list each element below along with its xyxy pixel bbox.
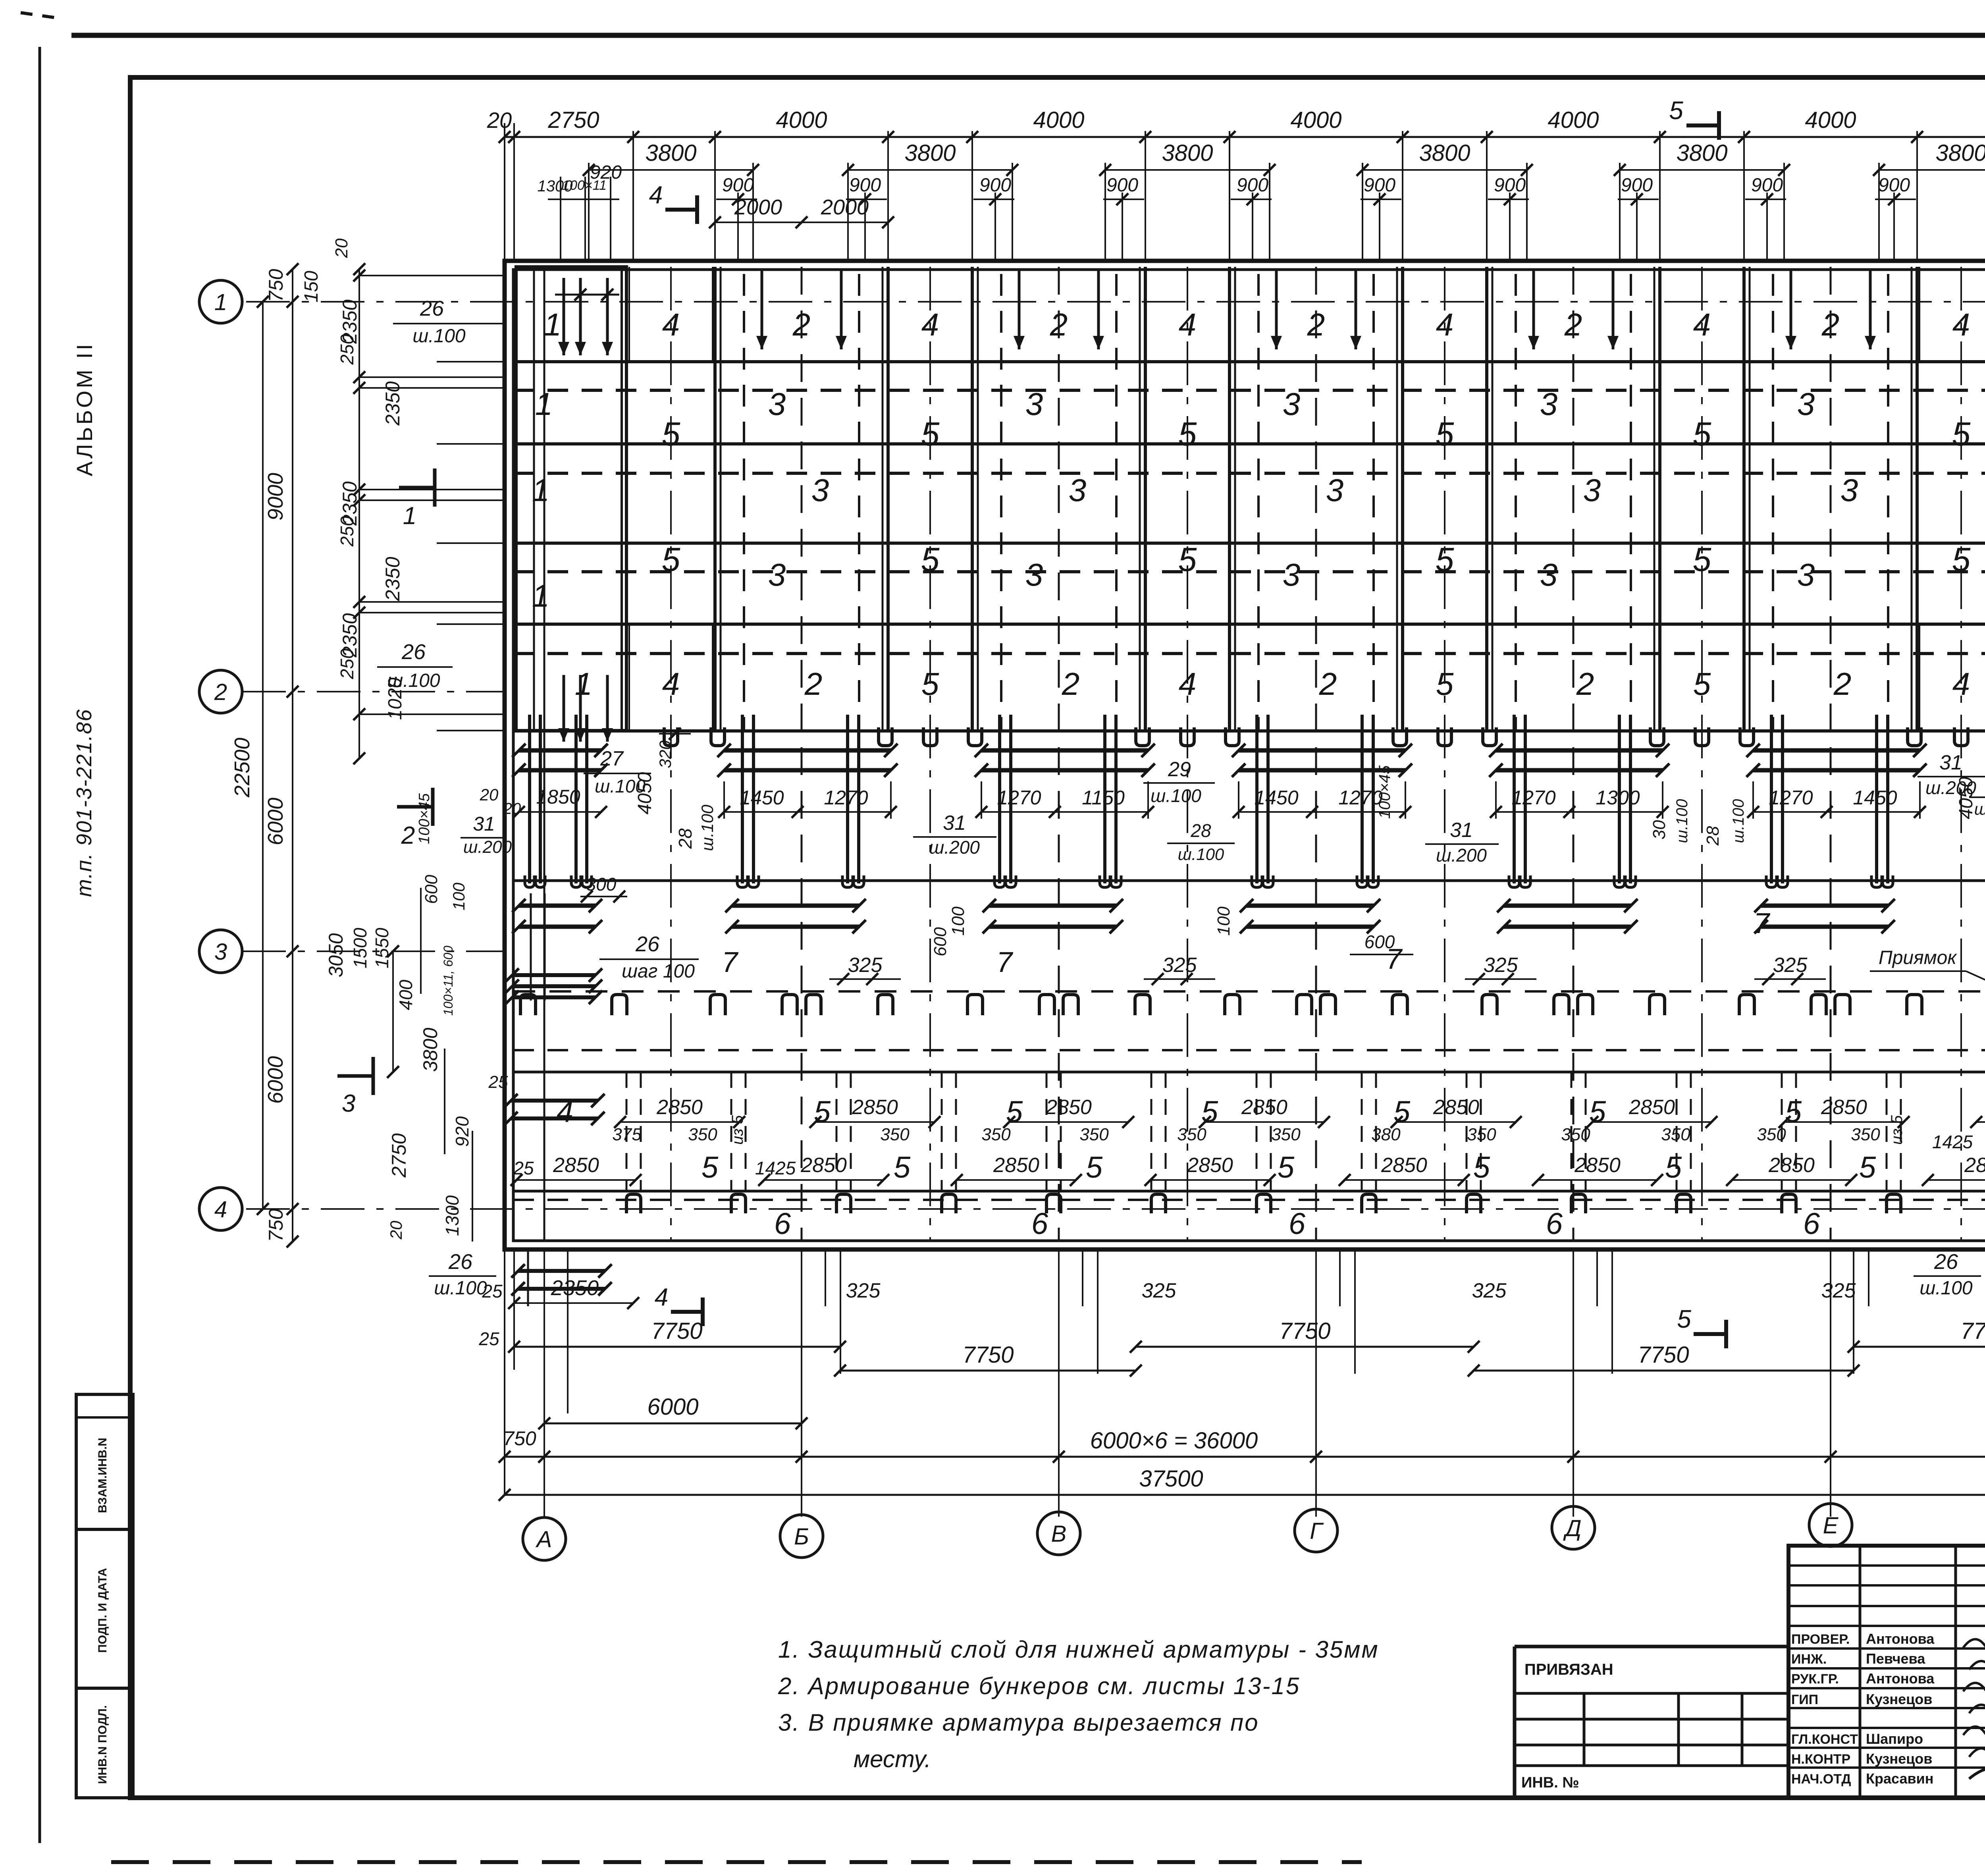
svg-text:1: 1: [575, 666, 593, 702]
svg-text:Шапиро: Шапиро: [1866, 1731, 1923, 1747]
svg-text:3050: 3050: [325, 933, 347, 977]
lower bars left edge corner: [511, 1099, 598, 1103]
svg-text:375: 375: [612, 1125, 642, 1144]
corner scan marks: [21, 13, 60, 18]
lower zone hooks: [626, 1194, 641, 1213]
svg-text:7750: 7750: [1279, 1318, 1330, 1344]
svg-text:31: 31: [1450, 819, 1473, 842]
svg-text:2350: 2350: [382, 557, 404, 601]
bottom 7750 row 2: [840, 1370, 1136, 1372]
svg-text:9000: 9000: [264, 473, 287, 521]
left chain 22500: [262, 302, 264, 1209]
svg-text:7: 7: [996, 947, 1014, 978]
lower zone dashed line B: [513, 1199, 1985, 1201]
column strip axis Е: [1742, 267, 1746, 731]
svg-text:25: 25: [488, 1072, 508, 1092]
hooks along joint: [710, 995, 725, 1015]
svg-text:4: 4: [557, 1095, 573, 1129]
svg-text:31: 31: [1939, 751, 1962, 774]
column strip axis Б: [713, 267, 717, 731]
svg-text:31: 31: [943, 812, 966, 835]
svg-text:2850: 2850: [1964, 1154, 1985, 1177]
svg-text:350: 350: [1661, 1125, 1690, 1144]
svg-text:4000: 4000: [776, 107, 827, 133]
svg-text:1425: 1425: [1932, 1132, 1973, 1152]
svg-text:25: 25: [482, 1281, 503, 1301]
svg-text:3: 3: [1069, 472, 1087, 508]
svg-text:320: 320: [656, 740, 675, 768]
svg-text:1150: 1150: [1082, 787, 1125, 809]
svg-text:2850: 2850: [1381, 1154, 1427, 1177]
svg-text:1300: 1300: [1596, 787, 1640, 809]
svg-text:ГЛ.КОНСТ: ГЛ.КОНСТ: [1791, 1732, 1858, 1747]
svg-text:3: 3: [1540, 557, 1558, 592]
svg-text:920: 920: [590, 162, 622, 183]
sheet outer border top: [71, 33, 1985, 38]
bottom 37500 row: [505, 1494, 1985, 1496]
svg-text:1270: 1270: [997, 787, 1041, 809]
plan bottom slab outline inner: [513, 270, 1985, 1241]
svg-text:350: 350: [688, 1125, 717, 1144]
rebar cluster axis D: [1513, 715, 1516, 883]
svg-text:5: 5: [1086, 1151, 1103, 1184]
svg-text:2850: 2850: [656, 1096, 703, 1119]
svg-text:2: 2: [792, 307, 811, 342]
svg-text:из 5: из 5: [1888, 1115, 1906, 1145]
svg-text:Кузнецов: Кузнецов: [1866, 1691, 1932, 1707]
svg-text:7: 7: [1754, 908, 1771, 939]
svg-text:100×45: 100×45: [416, 793, 433, 844]
svg-text:5: 5: [1278, 1151, 1295, 1184]
svg-text:5: 5: [1589, 1095, 1606, 1129]
svg-text:1: 1: [544, 307, 562, 342]
svg-text:2850: 2850: [800, 1154, 847, 1177]
lower zone solid line B: [513, 1190, 1985, 1193]
svg-text:25: 25: [513, 1158, 534, 1178]
svg-text:6000: 6000: [647, 1394, 698, 1420]
svg-text:ш.100: ш.100: [698, 804, 717, 851]
svg-text:ш.100: ш.100: [1151, 785, 1201, 806]
svg-text:ш.100: ш.100: [1178, 845, 1224, 864]
svg-text:2850: 2850: [1187, 1154, 1233, 1177]
svg-text:ИНВ. №: ИНВ. №: [1521, 1774, 1579, 1791]
svg-text:3: 3: [1540, 386, 1558, 422]
svg-text:5: 5: [1436, 541, 1454, 578]
svg-text:100: 100: [1214, 906, 1233, 936]
svg-text:400: 400: [395, 979, 416, 1010]
svg-text:2: 2: [1833, 666, 1852, 702]
svg-text:600: 600: [422, 875, 441, 904]
svg-text:1450: 1450: [740, 787, 784, 809]
svg-text:750: 750: [265, 269, 287, 302]
svg-text:Н.КОНТР: Н.КОНТР: [1791, 1752, 1850, 1767]
svg-text:2000: 2000: [821, 195, 869, 219]
svg-text:АЛЬБОМ II: АЛЬБОМ II: [72, 341, 97, 476]
svg-text:6: 6: [1289, 1207, 1306, 1241]
bottom 6000 row: [544, 1423, 802, 1425]
svg-text:1450: 1450: [1853, 787, 1897, 809]
axis 4 dash-dot: [246, 1208, 1985, 1210]
rebar cluster edge A: [528, 715, 531, 883]
svg-text:месту.: месту.: [854, 1746, 931, 1772]
svg-text:7750: 7750: [962, 1342, 1014, 1368]
sheet outer border left: [39, 47, 41, 1843]
svg-text:5: 5: [814, 1095, 831, 1129]
svg-text:25: 25: [478, 1328, 499, 1349]
svg-text:4: 4: [1179, 666, 1197, 702]
svg-text:26: 26: [1934, 1250, 1958, 1274]
svg-text:6000: 6000: [264, 1056, 287, 1104]
svg-text:2: 2: [1821, 307, 1840, 342]
svg-text:2850: 2850: [1628, 1096, 1675, 1119]
svg-text:7750: 7750: [1960, 1318, 1985, 1344]
svg-text:325: 325: [1142, 1279, 1177, 1302]
axis circle 4: [199, 1188, 242, 1230]
svg-text:3: 3: [342, 1090, 355, 1117]
top projection lines: [714, 131, 716, 261]
svg-text:ш.100: ш.100: [1673, 799, 1691, 843]
svg-text:2: 2: [214, 679, 227, 705]
svg-text:ш.100: ш.100: [1730, 799, 1747, 843]
axis leader lines: [242, 691, 505, 692]
svg-text:ИНВ.N ПОДЛ.: ИНВ.N ПОДЛ.: [96, 1705, 109, 1784]
svg-text:750: 750: [265, 1209, 287, 1242]
svg-text:3: 3: [1583, 472, 1601, 508]
svg-text:4: 4: [662, 307, 680, 342]
svg-text:350: 350: [1851, 1125, 1880, 1144]
svg-text:5: 5: [1693, 415, 1711, 453]
svg-text:2: 2: [1576, 666, 1594, 702]
svg-text:4: 4: [662, 666, 680, 702]
svg-text:В: В: [1051, 1521, 1067, 1547]
svg-text:5: 5: [894, 1151, 911, 1184]
svg-text:20: 20: [503, 800, 521, 817]
svg-text:2850: 2850: [993, 1154, 1039, 1177]
svg-text:37500: 37500: [1139, 1466, 1203, 1492]
svg-text:350: 350: [880, 1125, 910, 1144]
svg-text:Певчева: Певчева: [1866, 1650, 1925, 1667]
svg-text:3: 3: [1025, 557, 1043, 592]
svg-text:28: 28: [1703, 826, 1723, 846]
title block frame: [1788, 1546, 1985, 1798]
svg-text:5: 5: [1952, 415, 1971, 453]
svg-text:350: 350: [1079, 1125, 1109, 1144]
rebar cluster axis E: [1770, 715, 1773, 883]
svg-text:3800: 3800: [419, 1028, 441, 1072]
svg-text:150: 150: [301, 271, 322, 303]
svg-text:29: 29: [1168, 758, 1191, 781]
svg-text:4000: 4000: [1290, 107, 1341, 133]
svg-text:5: 5: [1006, 1095, 1023, 1129]
svg-text:3800: 3800: [904, 140, 956, 166]
svg-text:4: 4: [921, 307, 939, 342]
left stamp column: [76, 1394, 133, 1798]
bottom axis circles: [523, 1517, 566, 1560]
svg-text:5: 5: [1201, 1095, 1218, 1129]
svg-text:5: 5: [1436, 415, 1454, 453]
svg-text:РУК.ГР.: РУК.ГР.: [1791, 1672, 1839, 1687]
svg-text:250: 250: [337, 648, 357, 679]
bottom 7750 row 1: [514, 1346, 840, 1348]
svg-text:5: 5: [1436, 666, 1454, 702]
svg-text:7: 7: [1386, 943, 1403, 975]
svg-text:ИНЖ.: ИНЖ.: [1791, 1652, 1827, 1667]
svg-text:2850: 2850: [1768, 1154, 1815, 1177]
svg-text:5: 5: [1693, 666, 1711, 702]
svg-text:ш.100: ш.100: [412, 326, 466, 347]
sheet outer border bottom dashed: [111, 1860, 1362, 1864]
gap centre bottom hooks: [664, 727, 678, 746]
title block signature grid: [1788, 1564, 1985, 1567]
svg-text:4: 4: [1952, 307, 1970, 342]
svg-text:2. Армирование бункеров см.: 2. Армирование бункеров см. листы 13-15: [778, 1673, 1300, 1699]
rebar cluster axis B: [741, 715, 744, 883]
svg-text:600: 600: [931, 927, 950, 956]
svg-text:2: 2: [1564, 307, 1582, 342]
svg-text:ПОДП. И ДАТА: ПОДП. И ДАТА: [96, 1568, 109, 1653]
column strip axis Д: [1485, 267, 1488, 731]
svg-text:26: 26: [401, 640, 426, 664]
svg-text:5: 5: [1952, 541, 1971, 578]
bay centre dash-dot verticals: [670, 267, 672, 1241]
svg-text:4: 4: [655, 1284, 668, 1311]
upper zone solid row lines: [513, 360, 1985, 363]
svg-text:1500: 1500: [350, 927, 370, 968]
svg-text:920: 920: [452, 1116, 472, 1147]
svg-text:4000: 4000: [1548, 107, 1599, 133]
svg-text:5: 5: [662, 415, 680, 453]
svg-text:6000: 6000: [264, 798, 287, 845]
svg-text:шаг 100: шаг 100: [622, 961, 695, 982]
svg-text:20: 20: [487, 108, 512, 133]
svg-text:3: 3: [768, 386, 786, 422]
axis 1 dash-dot line: [246, 301, 1985, 303]
svg-text:250: 250: [337, 334, 357, 365]
svg-text:3: 3: [214, 939, 227, 965]
band divider line (bottom of middle band): [513, 879, 1985, 882]
svg-text:4: 4: [649, 181, 663, 209]
svg-text:2: 2: [1050, 307, 1068, 342]
top dim row 1: [505, 136, 1985, 138]
svg-text:5: 5: [1859, 1151, 1876, 1184]
column strip axis В: [971, 267, 974, 731]
svg-text:5: 5: [662, 541, 680, 578]
svg-text:7750: 7750: [651, 1318, 702, 1344]
svg-text:350: 350: [1177, 1125, 1206, 1144]
svg-text:7: 7: [722, 947, 739, 978]
svg-text:20: 20: [332, 238, 351, 258]
signatures: [1963, 1636, 1985, 1650]
svg-text:2: 2: [1307, 307, 1325, 342]
svg-text:Б: Б: [794, 1524, 809, 1550]
svg-text:5: 5: [1178, 541, 1197, 578]
rebar cluster axis G: [1255, 715, 1258, 883]
svg-text:4050: 4050: [634, 772, 655, 814]
svg-text:26: 26: [420, 297, 444, 320]
svg-text:28: 28: [1190, 820, 1211, 841]
rebar cluster axis V: [998, 715, 1001, 883]
svg-text:1450: 1450: [1254, 787, 1298, 809]
svg-text:5: 5: [1785, 1095, 1802, 1129]
svg-text:30: 30: [1650, 820, 1669, 839]
svg-text:20: 20: [480, 785, 499, 804]
svg-text:5: 5: [921, 666, 939, 702]
hooked bars edge strip A top: [563, 278, 565, 355]
svg-text:4000: 4000: [1033, 107, 1084, 133]
svg-text:Г: Г: [1310, 1518, 1324, 1544]
svg-text:100: 100: [449, 882, 468, 910]
svg-text:Д: Д: [1563, 1515, 1582, 1541]
svg-text:1: 1: [403, 502, 416, 530]
svg-text:3: 3: [1283, 386, 1301, 422]
svg-text:1270: 1270: [1769, 787, 1813, 809]
svg-text:20: 20: [387, 1220, 405, 1240]
svg-text:100: 100: [948, 906, 968, 936]
svg-text:ш.200: ш.200: [929, 837, 980, 858]
svg-text:6: 6: [1546, 1207, 1563, 1241]
svg-text:Антонова: Антонова: [1866, 1670, 1935, 1687]
top dim row 2 (3800): [589, 169, 753, 171]
svg-text:5: 5: [1393, 1095, 1411, 1129]
svg-text:1270: 1270: [824, 787, 868, 809]
svg-text:3: 3: [1797, 386, 1815, 422]
svg-text:т.п. 901-3-221.86: т.п. 901-3-221.86: [72, 709, 96, 897]
top dim row 3 (900): [548, 199, 619, 200]
svg-text:750: 750: [503, 1427, 536, 1450]
svg-text:6: 6: [1803, 1207, 1820, 1241]
svg-text:2850: 2850: [1821, 1096, 1867, 1119]
svg-text:4: 4: [214, 1197, 227, 1222]
svg-text:Приямок: Приямок: [1879, 947, 1957, 968]
svg-text:250: 250: [337, 516, 357, 547]
top dim row 4 (2000): [715, 222, 888, 223]
svg-text:100×45: 100×45: [1376, 765, 1393, 819]
svg-text:1270: 1270: [1511, 787, 1555, 809]
svg-text:26: 26: [448, 1250, 473, 1274]
svg-text:350: 350: [1467, 1125, 1496, 1144]
svg-text:НАЧ.ОТД: НАЧ.ОТД: [1791, 1772, 1851, 1787]
svg-text:2: 2: [804, 666, 823, 702]
lower bars left edge: [512, 973, 595, 977]
svg-text:2: 2: [1319, 666, 1337, 702]
svg-text:100×11, 600: 100×11, 600: [441, 946, 455, 1016]
svg-text:5: 5: [921, 541, 940, 578]
svg-text:325: 325: [1472, 1279, 1507, 1302]
svg-text:2850: 2850: [1241, 1096, 1287, 1119]
svg-text:ГИП: ГИП: [1791, 1692, 1818, 1707]
svg-text:5: 5: [1178, 415, 1197, 453]
svg-text:325: 325: [846, 1279, 881, 1302]
dashed construction joint line: [513, 990, 1985, 993]
bottom left bars below plan: [518, 1269, 605, 1273]
lower zone dashed line A: [513, 1049, 1985, 1051]
privyazan box: [1515, 1645, 1788, 1648]
svg-text:Е: Е: [1823, 1513, 1839, 1539]
svg-text:4: 4: [1436, 307, 1454, 342]
svg-text:380: 380: [1371, 1125, 1401, 1144]
band divider line (bottom of upper panel): [513, 729, 1985, 733]
svg-text:ш.100: ш.100: [387, 670, 440, 691]
svg-text:3: 3: [1797, 557, 1815, 592]
svg-text:1: 1: [532, 578, 550, 613]
axis A vertical line: [543, 267, 545, 1241]
section mark 3 left: [337, 1074, 373, 1078]
svg-text:1: 1: [532, 472, 550, 508]
svg-text:3: 3: [1840, 472, 1858, 508]
svg-text:5: 5: [1669, 96, 1683, 125]
svg-text:350: 350: [1561, 1125, 1590, 1144]
svg-text:26: 26: [635, 932, 660, 956]
svg-text:5: 5: [1677, 1305, 1691, 1333]
svg-text:3800: 3800: [1935, 140, 1985, 166]
svg-text:ш.100: ш.100: [434, 1278, 487, 1299]
svg-text:1425: 1425: [755, 1158, 796, 1178]
svg-text:325: 325: [1821, 1279, 1856, 1302]
svg-text:5: 5: [921, 415, 940, 453]
svg-text:3. В приямке арматура выре: 3. В приямке арматура вырезается по: [778, 1709, 1259, 1736]
bottom projection lines: [543, 1249, 545, 1517]
svg-text:2: 2: [401, 822, 415, 849]
axis circle 2: [199, 670, 242, 713]
svg-text:5: 5: [1473, 1151, 1490, 1184]
bay edge thin verticals top/bottom rows: [628, 267, 630, 362]
svg-text:3: 3: [811, 472, 829, 508]
svg-text:ВЗАМ.ИНВ.N: ВЗАМ.ИНВ.N: [96, 1438, 109, 1513]
svg-text:5: 5: [1665, 1151, 1682, 1184]
svg-text:ш.200: ш.200: [463, 837, 512, 857]
svg-text:ш.200: ш.200: [1436, 845, 1487, 866]
svg-text:7750: 7750: [1638, 1342, 1689, 1368]
svg-text:1300: 1300: [442, 1195, 463, 1236]
svg-text:4050: 4050: [1956, 777, 1977, 819]
svg-text:350: 350: [981, 1125, 1011, 1144]
svg-text:4: 4: [1952, 666, 1970, 702]
svg-text:6: 6: [774, 1207, 791, 1241]
column strip axis Г: [1228, 267, 1231, 731]
svg-text:27: 27: [600, 747, 624, 770]
svg-text:3800: 3800: [1676, 140, 1727, 166]
svg-text:Антонова: Антонова: [1866, 1631, 1935, 1647]
svg-text:28: 28: [675, 828, 696, 849]
svg-text:6000×6 = 36000: 6000×6 = 36000: [1090, 1428, 1258, 1454]
svg-text:5: 5: [1693, 541, 1711, 578]
svg-text:3: 3: [1025, 386, 1043, 422]
svg-text:ПРИВЯЗАН: ПРИВЯЗАН: [1524, 1661, 1613, 1678]
svg-text:1: 1: [214, 289, 227, 315]
svg-text:2850: 2850: [553, 1154, 599, 1177]
svg-text:3800: 3800: [1419, 140, 1470, 166]
left lower chain lines: [392, 951, 394, 1072]
svg-text:3800: 3800: [1162, 140, 1213, 166]
svg-text:Красавин: Красавин: [1866, 1770, 1933, 1787]
svg-text:350: 350: [1271, 1125, 1301, 1144]
svg-text:2850: 2850: [1045, 1096, 1092, 1119]
svg-text:3: 3: [1283, 557, 1301, 592]
svg-text:2000: 2000: [734, 195, 782, 219]
upper zone dashed row lines: [513, 389, 1985, 392]
plan bottom slab outline outer: [505, 261, 1985, 1249]
edge strip at axis A: [516, 267, 626, 731]
svg-text:4: 4: [1179, 307, 1197, 342]
svg-text:3800: 3800: [645, 140, 696, 166]
svg-text:22500: 22500: [230, 738, 254, 798]
svg-text:350: 350: [1757, 1125, 1786, 1144]
axis circle 3: [199, 930, 242, 973]
left row extension lines: [359, 275, 505, 276]
lower zone solid line A: [513, 1071, 1985, 1074]
svg-text:1850: 1850: [536, 786, 580, 808]
lower zone vertical dashed pairs: [626, 1072, 628, 1191]
